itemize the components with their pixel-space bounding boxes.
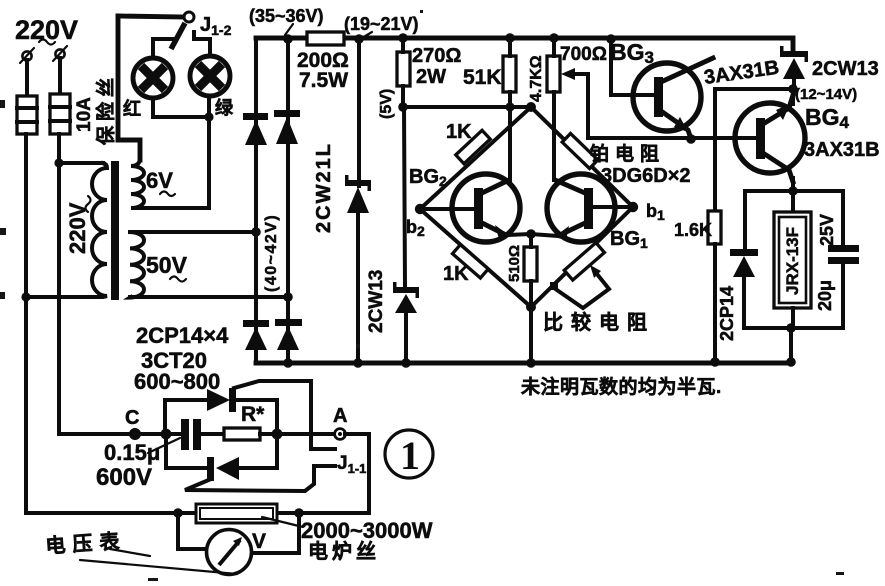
terminal X2 bbox=[53, 46, 67, 61]
svg-text:1K: 1K bbox=[443, 263, 469, 285]
node lamps bottom bbox=[204, 112, 213, 121]
svg-text:4.7KΩ: 4.7KΩ bbox=[528, 55, 545, 102]
node b2 bbox=[415, 204, 425, 214]
circled number 1 bbox=[385, 430, 433, 478]
wire bottom vertex to rail bbox=[529, 307, 533, 363]
leader voltmeter bbox=[80, 549, 237, 574]
wire R* to right node bbox=[260, 432, 335, 436]
svg-text:600~800: 600~800 bbox=[134, 369, 220, 394]
node 51K on 5V wire bbox=[505, 102, 514, 111]
wire relay node to bottom rail bbox=[789, 328, 793, 363]
wire bridge right branch bbox=[286, 38, 290, 363]
wire lamps bottom bbox=[153, 98, 209, 117]
wiper arrow of 4.7K to BG3 emitter line bbox=[561, 68, 588, 138]
relay coil JRX-13F bbox=[774, 191, 811, 328]
wire fuse2 branch to node C bbox=[59, 432, 166, 436]
node BG4 emitter bbox=[788, 186, 798, 196]
svg-text:2CP14×4: 2CP14×4 bbox=[136, 323, 229, 348]
zener 2CW21L bbox=[345, 175, 371, 213]
svg-text:(5V): (5V) bbox=[378, 89, 395, 119]
node 5V bbox=[398, 102, 408, 112]
node heater left bbox=[173, 508, 183, 518]
node right branch bottom bbox=[283, 358, 293, 368]
node 2CW21L bottom bbox=[353, 358, 363, 368]
transistor BG1 bbox=[547, 174, 630, 242]
svg-text:(40~42V): (40~42V) bbox=[263, 214, 280, 292]
node on bottom rail right bbox=[786, 357, 796, 367]
svg-text:2CW13: 2CW13 bbox=[366, 270, 387, 333]
diode D2 bbox=[274, 110, 300, 144]
svg-text:600V: 600V bbox=[96, 464, 152, 491]
resistor 270ohm bbox=[397, 52, 410, 86]
transformer secondary 6V bbox=[131, 141, 144, 208]
wire F1 down left rail bbox=[24, 134, 28, 513]
wire X2 to fuse F2 bbox=[58, 58, 62, 94]
heater element body bbox=[196, 504, 277, 523]
transistor BG3 bbox=[633, 58, 713, 139]
node 2CW13 bottom bbox=[401, 358, 411, 368]
wire X1 to fuse F1 bbox=[25, 60, 29, 96]
svg-text:比较电阻: 比较电阻 bbox=[543, 310, 655, 334]
wire BG2 emitter to common bbox=[508, 234, 531, 235]
svg-text:2W: 2W bbox=[416, 66, 446, 88]
svg-text:6V: 6V bbox=[146, 168, 173, 193]
node 51K top bbox=[505, 33, 515, 43]
svg-text:铂电阻: 铂电阻 bbox=[590, 142, 665, 165]
wire BG1 emitter to common bbox=[531, 234, 558, 236]
capacitor 0.15u bbox=[166, 419, 224, 450]
svg-text:(35~36V): (35~36V) bbox=[249, 6, 324, 26]
svg-text:JRX-13F: JRX-13F bbox=[783, 227, 802, 295]
leader 35-36V bbox=[285, 24, 293, 35]
svg-text:2000~3000W: 2000~3000W bbox=[301, 518, 433, 543]
svg-text:270Ω: 270Ω bbox=[412, 45, 461, 67]
svg-text:A: A bbox=[333, 405, 347, 427]
svg-text:保险丝: 保险丝 bbox=[94, 73, 117, 146]
wire 2CW13 branch bbox=[404, 107, 405, 287]
wire 51K to BG2 collector bbox=[508, 92, 512, 180]
wire A to heater loop bbox=[299, 434, 369, 513]
thyristor SCR2 bbox=[185, 457, 335, 491]
resistor 510ohm bbox=[524, 247, 537, 281]
node primary-top junction bbox=[54, 158, 63, 167]
wire top to switch bbox=[118, 16, 184, 17]
resistor 1K lower bbox=[452, 245, 488, 278]
diode D1 bbox=[243, 113, 268, 145]
transistor BG4 bbox=[735, 95, 805, 182]
svg-text:2CP14: 2CP14 bbox=[717, 286, 737, 341]
zener 2CW13 bbox=[393, 282, 419, 313]
node heater right bbox=[294, 508, 304, 518]
node BG3 base bias bbox=[606, 34, 616, 44]
wire J1-2 feeder vertical bbox=[118, 16, 140, 160]
wire 2CW21L branch bbox=[357, 39, 361, 186]
diode D4 bbox=[275, 319, 302, 350]
wire SCR1 anode side bbox=[236, 398, 277, 402]
svg-text:C: C bbox=[125, 407, 139, 429]
terminal X1 bbox=[20, 48, 34, 63]
wire F2 down to C branch bbox=[57, 134, 61, 434]
wire top rail right corner bbox=[789, 38, 793, 51]
node 12-14V bbox=[788, 84, 798, 94]
fuse F1 bbox=[17, 96, 37, 134]
comparison pot wiper loop bbox=[550, 265, 609, 308]
svg-text:电炉丝: 电炉丝 bbox=[308, 539, 380, 563]
svg-text:51K: 51K bbox=[463, 66, 502, 89]
wire emitter line BG3 to BG4 base bbox=[588, 136, 756, 140]
resistor R 200ohm on rail bbox=[307, 32, 344, 45]
svg-text:3AX31B: 3AX31B bbox=[804, 139, 880, 161]
wire lamp red top bbox=[153, 39, 174, 58]
terminal A bbox=[335, 429, 346, 440]
leader heater bbox=[262, 517, 303, 527]
node box right bbox=[272, 429, 283, 440]
wire primary bottom to left rail bbox=[26, 295, 95, 299]
wire 12-14V node to 1.6K bbox=[715, 89, 793, 211]
transistor BG2 bbox=[425, 174, 520, 242]
wire box right riser bbox=[275, 400, 279, 468]
svg-text:V: V bbox=[252, 530, 266, 553]
transformer secondary 50V bbox=[130, 232, 144, 298]
lamp red HL1 bbox=[133, 58, 173, 98]
resistor 51K bbox=[503, 56, 516, 92]
lamp green HL2 bbox=[190, 56, 230, 96]
node 50V-top on left branch bbox=[251, 227, 261, 237]
wire voltmeter right bbox=[251, 513, 299, 553]
node right branch top bbox=[283, 34, 293, 44]
wire BG3 base bbox=[611, 39, 654, 95]
node 2CW21L top bbox=[354, 34, 364, 44]
wire bridge arm upper-right bbox=[531, 107, 633, 207]
label 50V bbox=[146, 252, 188, 282]
svg-text:红: 红 bbox=[123, 98, 141, 119]
leader 19-21V bbox=[362, 32, 372, 38]
potentiometer 4.7K body bbox=[547, 56, 560, 92]
wire 4.7K to BG1 collector bbox=[552, 92, 556, 180]
node emitters common bbox=[526, 229, 536, 239]
node on bottom rail bbox=[526, 358, 536, 368]
svg-text:(12~14V): (12~14V) bbox=[795, 86, 857, 103]
leader 0.15u bbox=[148, 438, 180, 453]
wire bridge arm lower-right bbox=[531, 207, 633, 307]
node C bbox=[129, 428, 141, 440]
wire to 2CP14 branch bbox=[745, 191, 793, 250]
svg-text:R*: R* bbox=[241, 403, 265, 426]
svg-text:7.5W: 7.5W bbox=[299, 69, 348, 92]
resistor R* bbox=[224, 428, 260, 440]
wire primary top bbox=[59, 161, 103, 165]
node 4.7K top bbox=[549, 33, 559, 43]
svg-text:1.6K: 1.6K bbox=[674, 220, 712, 240]
transformer primary winding 220V bbox=[92, 163, 107, 297]
node 1.6K bottom bbox=[710, 357, 720, 367]
svg-text:3DG6D×2: 3DG6D×2 bbox=[601, 165, 691, 187]
svg-text:(19~21V): (19~21V) bbox=[344, 14, 419, 34]
wire voltmeter left bbox=[178, 513, 207, 549]
node b1 bbox=[628, 202, 638, 212]
capacitor 20u plates bbox=[828, 245, 859, 328]
svg-text:20μ: 20μ bbox=[815, 280, 835, 311]
svg-text:25V: 25V bbox=[817, 214, 837, 246]
transformer core bbox=[111, 161, 119, 300]
label 220V mains bbox=[15, 15, 78, 45]
svg-text:10A: 10A bbox=[74, 97, 95, 132]
resistor platinum sensor bbox=[562, 133, 598, 168]
wire relay bottom bus bbox=[744, 326, 843, 330]
svg-text:绿: 绿 bbox=[215, 97, 234, 118]
svg-text:2CW21L: 2CW21L bbox=[313, 142, 335, 233]
diode 2CP14 bbox=[730, 249, 758, 328]
voltmeter bbox=[207, 530, 252, 575]
wire 1.6K to bottom rail bbox=[713, 244, 717, 362]
bridge bottom vertex node bbox=[526, 302, 536, 312]
svg-text:未注明瓦数的均为半瓦.: 未注明瓦数的均为半瓦. bbox=[520, 375, 722, 398]
wire BG4 collector stub bbox=[791, 89, 795, 104]
wire BG4 emitter stub bbox=[791, 178, 795, 191]
bridge top vertex node bbox=[526, 102, 536, 112]
potentiometer comparison resistor body bbox=[564, 243, 604, 280]
svg-text:700Ω: 700Ω bbox=[560, 44, 607, 65]
node 270ohm top bbox=[398, 33, 408, 43]
zener 2CW13 right bbox=[780, 46, 808, 89]
resistor 1.6K bbox=[708, 211, 721, 244]
wire top rail bbox=[256, 36, 789, 41]
wire bottom mains loop bbox=[26, 511, 299, 513]
switch J1-2 pivot bbox=[184, 12, 194, 22]
label 6V bbox=[146, 168, 175, 196]
svg-text:0.15μ: 0.15μ bbox=[104, 440, 160, 465]
wire lamp green top bbox=[194, 32, 210, 56]
wire bridge arm upper-left bbox=[420, 107, 531, 209]
svg-text:1: 1 bbox=[400, 433, 420, 478]
wire 6V bottom bbox=[133, 117, 209, 208]
diode D3 bbox=[243, 320, 269, 350]
label 220V primary bbox=[65, 196, 91, 254]
node primary-bottom junction bbox=[21, 292, 30, 301]
fuse F2 bbox=[50, 94, 70, 134]
wire 5V node to bridge top vertex bbox=[403, 105, 531, 109]
capacitor 20u branch bbox=[793, 191, 843, 246]
svg-text:510Ω: 510Ω bbox=[506, 245, 523, 282]
wire box left risers bbox=[165, 400, 208, 468]
wire 50V top to bridge bbox=[130, 230, 256, 234]
node scr box left bbox=[161, 429, 172, 440]
wire SCR2 sides bbox=[239, 466, 277, 470]
switch J1-2 blade bbox=[171, 23, 185, 49]
wire 50V bottom to bridge bbox=[130, 295, 288, 299]
wire bridge arm lower-left bbox=[420, 209, 531, 307]
svg-text:2CW13: 2CW13 bbox=[812, 58, 879, 80]
svg-text:1K: 1K bbox=[446, 121, 472, 143]
node 50V-bottom on right branch bbox=[283, 292, 293, 302]
svg-text:50V: 50V bbox=[146, 252, 188, 278]
wire bottom rail bbox=[256, 361, 791, 366]
node relay bottom bbox=[786, 323, 796, 333]
thyristor SCR1 bbox=[207, 381, 335, 449]
wire bridge left branch bbox=[254, 38, 258, 363]
resistor 1K upper bbox=[456, 130, 491, 163]
node BG3 emitter bbox=[686, 134, 696, 144]
